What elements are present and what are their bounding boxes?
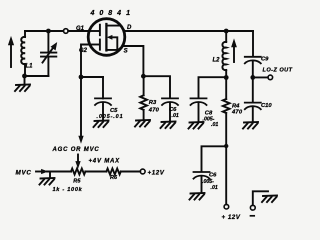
svg-text:.01: .01 [211,185,218,191]
svg-text:R4: R4 [232,104,240,110]
node: tank top junction [46,29,51,34]
svg-text:40841: 40841 [90,10,135,17]
ground at R5 cold end [49,172,51,177]
svg-text:470: 470 [148,107,160,113]
antenna arrow [10,45,12,68]
wire: junction to C8 [199,77,227,98]
svg-text:1k - 100k: 1k - 100k [53,187,83,193]
wire: supply rail down [225,146,227,204]
transistor Q1 40841 dual-gate MOSFET [88,19,125,56]
svg-text:C10: C10 [261,103,272,109]
wire: bottom rail [47,171,71,173]
wire: top rail corner to C9 [252,31,254,57]
node: L1 bottom junction [22,74,27,79]
capacitor C9 [245,57,261,64]
node: drain junction at L2 [224,29,229,34]
wire: C9 to C10 [252,77,254,102]
svg-text:MVC: MVC [16,170,32,177]
terminal: +12V [140,169,145,174]
wiper arrow to R5 [77,155,79,163]
wire: G2 down line [81,45,90,137]
inductor L1 [24,31,26,37]
svg-text:.01: .01 [211,122,218,128]
inductor L2 [225,31,227,42]
node: L2 bottom junction [224,75,229,80]
svg-text:.005-.01: .005-.01 [97,114,124,120]
G1 gate bar [89,30,99,32]
node: supply junction [224,144,228,148]
G2 gate bar [90,44,100,46]
svg-text:C6: C6 [169,107,177,113]
svg-text:+12V: +12V [148,170,165,177]
svg-text:R6: R6 [110,175,118,181]
capacitor C8 [191,98,207,105]
label minus [251,215,255,217]
ground at battery minus [262,196,277,203]
wire: drain rail [125,30,253,32]
wire: junction to variable cap bottom [25,75,49,77]
resistor R4 [225,78,227,100]
svg-text:L2: L2 [213,58,221,64]
terminal: LO-Z OUT [268,75,273,80]
arrowhead AGC line [79,136,83,142]
L2 tuning arrow [233,47,235,63]
svg-text:S: S [124,49,128,55]
wire: minus to ground [253,191,268,205]
channel [105,24,107,50]
wire: source rail to C6 [143,76,170,98]
svg-text:AGC OR MVC: AGC OR MVC [52,147,100,153]
node: source junction [141,74,146,79]
capacitor C6 (source bypass) [162,98,178,105]
drain inside lead [106,26,124,31]
svg-text:LO-Z OUT: LO-Z OUT [263,68,293,74]
svg-text:G1: G1 [76,26,85,32]
svg-text:+ 12V: + 12V [222,214,241,221]
resistor R6 [106,169,120,175]
ground under L1 [24,76,26,84]
wire: output tap [253,76,268,78]
MVC arrow [36,171,43,173]
svg-text:470: 470 [231,110,243,116]
terminal: +12V battery plus [224,204,229,209]
svg-text:D: D [127,25,132,31]
svg-text:L1: L1 [26,63,34,69]
capacitor C6 (decoupling bottom) [194,172,210,179]
wire: junction to C6 bottom decoupling [202,146,227,171]
node: output junction [250,75,255,80]
wire: source to bypass rail [123,46,144,76]
svg-text:R5: R5 [73,179,81,185]
wire: R5 to R6 [85,171,106,173]
wire: junction to C5 [81,76,103,78]
svg-text:R3: R3 [149,100,157,106]
resistor R5 (pot 1k-100k) [71,169,85,175]
svg-text:C9: C9 [261,57,269,63]
capacitor C10 [245,103,261,110]
svg-text:C6: C6 [209,173,217,179]
terminal: battery minus [250,205,255,210]
svg-text:.01: .01 [172,113,179,119]
capacitor C5 [102,77,104,98]
terminal: antenna input open circle [64,29,69,34]
source inside lead [106,46,122,50]
node: G2 bypass junction [79,75,84,80]
substrate arrow [112,37,117,50]
resistor R3 [143,76,145,95]
wire: terminal to G1 [68,30,89,32]
variable capacitor C (tank) [47,31,49,52]
svg-text:+4V MAX: +4V MAX [89,159,121,165]
wire: R6 to +12V terminal [121,171,140,173]
wire: top rail left [25,30,63,32]
